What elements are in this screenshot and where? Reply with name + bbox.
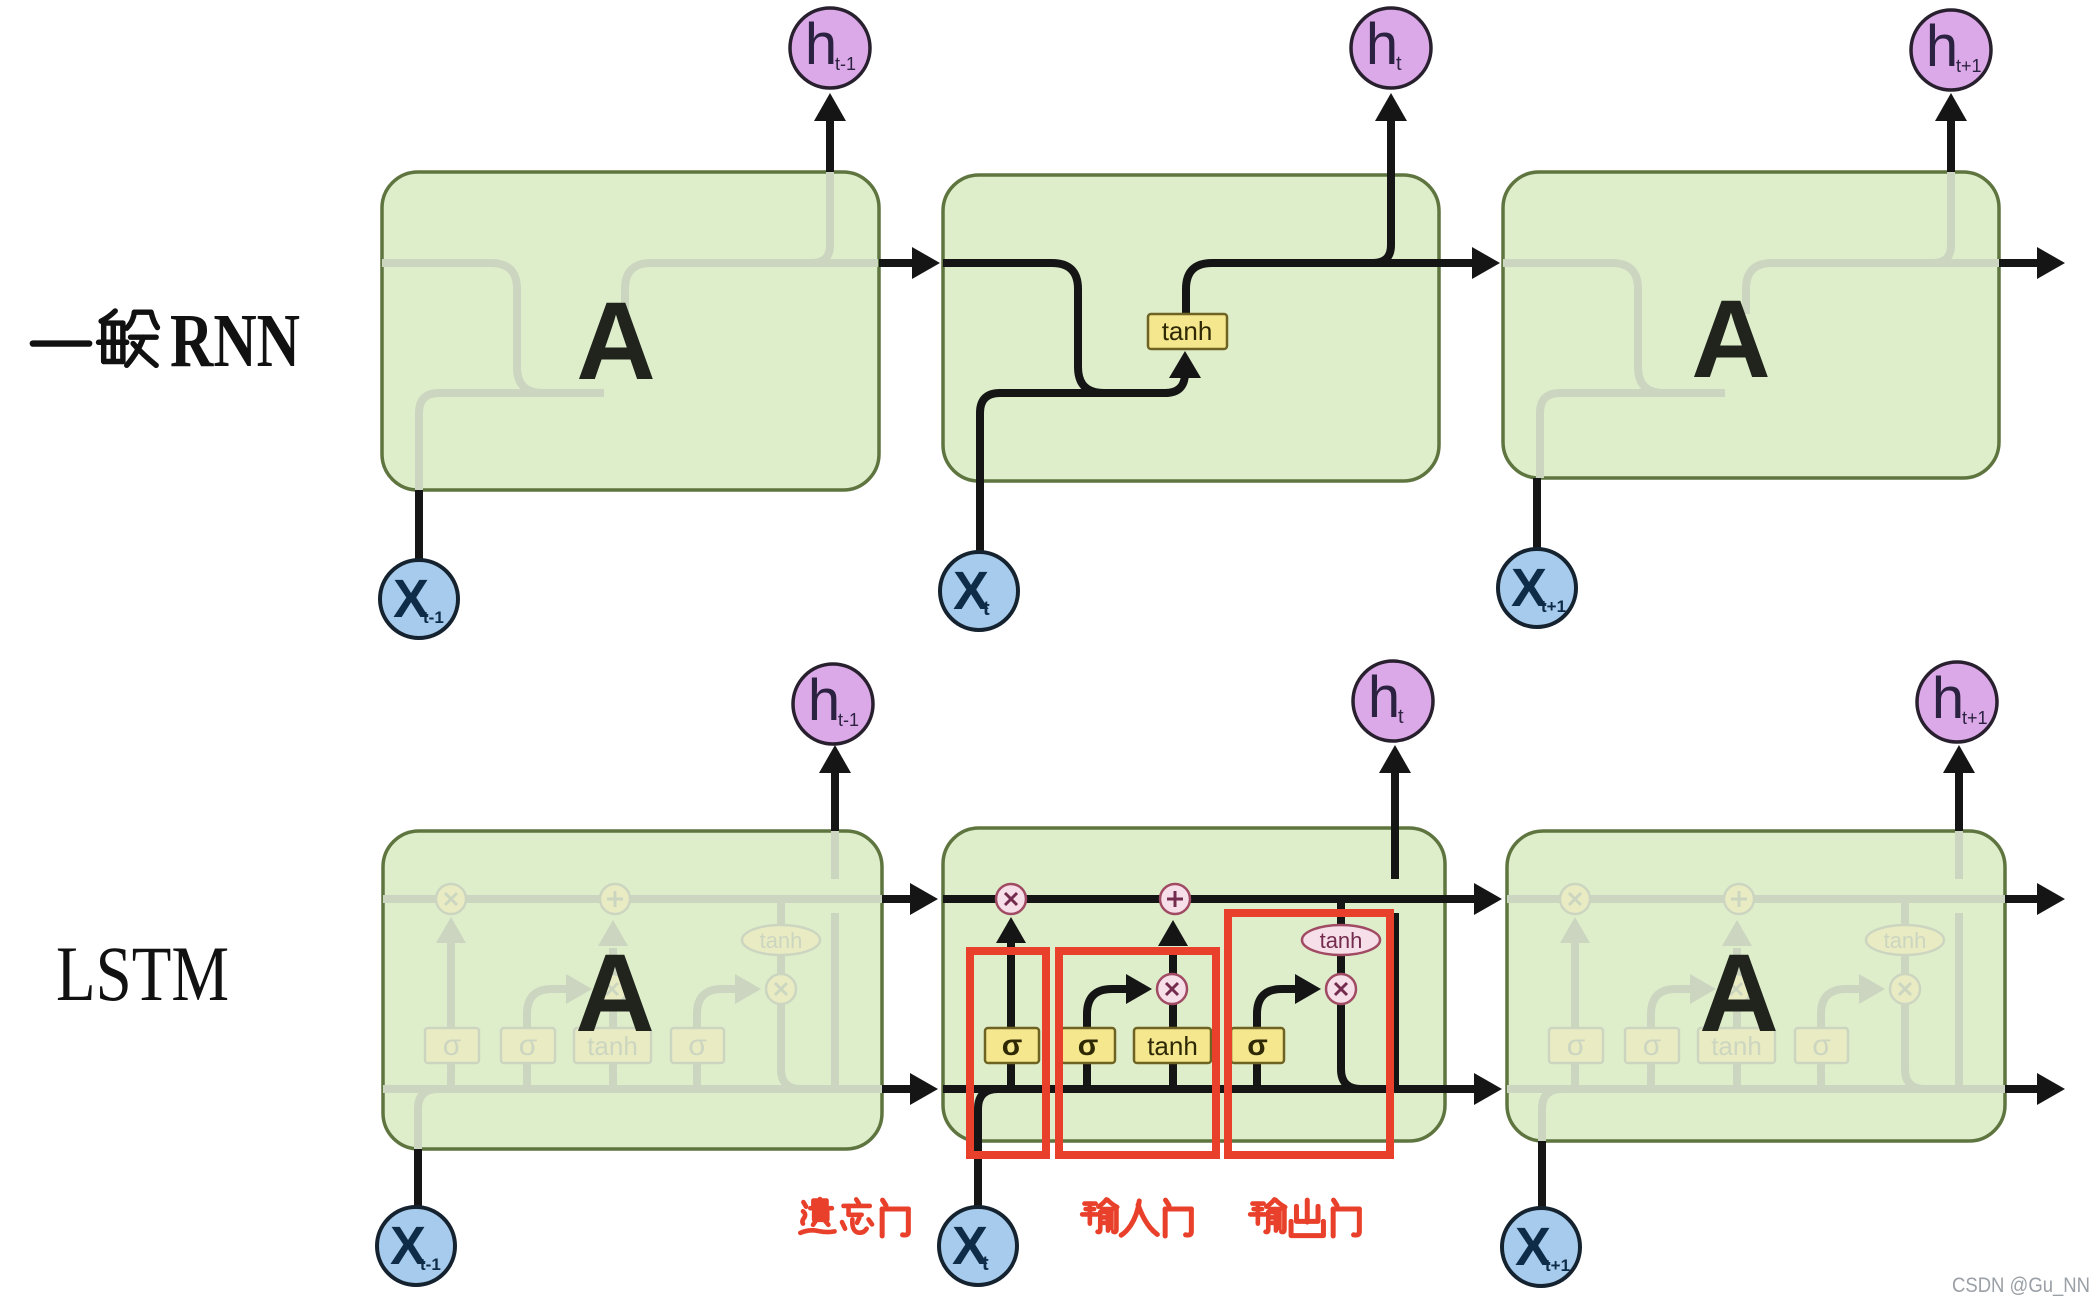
wire LSTM hidden rail t-1 to t <box>882 1085 910 1093</box>
activation box tanh of RNN cell t <box>1148 314 1227 349</box>
svg-text:h: h <box>1932 666 1964 731</box>
node x_t-1 (top row) <box>380 560 458 638</box>
wire: LSTM cell t input gate branch <box>1087 989 1127 1089</box>
gate box forget sigma of LSTM cell t-1 <box>425 1028 479 1063</box>
wire: RNN cell t branch up to h output <box>1373 175 1391 263</box>
RNN cell box A t+1 <box>1503 172 1999 478</box>
gate box forget sigma of LSTM cell t <box>985 1028 1039 1063</box>
wire RNN cell t-1 to t <box>879 259 912 267</box>
svg-text:A: A <box>576 280 655 403</box>
svg-text:σ: σ <box>1078 1029 1099 1062</box>
wire x_t+1 input (LSTM row) <box>1538 1141 1546 1209</box>
wire: LSTM cell t-1 hidden state rail <box>383 1085 885 1093</box>
node h_t-1 (top row) <box>790 8 870 88</box>
op: LSTM cell t+1 forget multiply <box>1560 884 1590 914</box>
op: LSTM cell t-1 cell tanh oval <box>742 925 820 955</box>
wire: RNN cell t+1 x-input rise <box>1540 393 1725 478</box>
wire: LSTM cell t output gate branch <box>1257 989 1295 1089</box>
gate box output sigma of LSTM cell t <box>1231 1028 1284 1063</box>
wire: LSTM cell t-1 cell to tanh drop <box>777 899 785 925</box>
wire LSTM hidden rail t+1 out <box>2005 1085 2037 1093</box>
wire: LSTM cell t+1 candidate branch <box>1733 1004 1741 1089</box>
wire: LSTM cell t output product drop to hidden rail <box>1341 1004 1361 1089</box>
svg-text:t-1: t-1 <box>423 608 444 627</box>
svg-text:σ: σ <box>1247 1029 1268 1062</box>
wire: RNN cell t-1 tanh output to top rail <box>625 263 878 314</box>
node h_t-1 (LSTM row) <box>793 664 873 744</box>
wire: LSTM cell t+1 cell to tanh drop <box>1901 899 1909 925</box>
wire x_t-1 input (top row) <box>415 490 423 560</box>
wire: LSTM cell t+1 output gate branch <box>1821 989 1859 1089</box>
label 遗忘门 forget gate <box>800 1199 834 1233</box>
wire RNN cell t+1 out <box>1999 259 2037 267</box>
svg-text:σ: σ <box>519 1029 538 1062</box>
svg-text:t: t <box>982 1253 989 1275</box>
RNN cell box A t-1 <box>382 172 879 490</box>
svg-text:CSDN @Gu_NN: CSDN @Gu_NN <box>1952 1274 2090 1297</box>
wire x_t+1 input (top row) <box>1533 478 1541 549</box>
wire: LSTM cell t h branch rise (gap at cell rail) <box>1391 913 1399 1089</box>
node h_t (LSTM row) <box>1353 661 1433 741</box>
wire: LSTM cell t+1 output product drop to hidden rail <box>1905 1004 1925 1089</box>
svg-text:t+1: t+1 <box>1956 56 1982 76</box>
wire h_t+1 output arrow (top row) <box>1947 121 1955 172</box>
wire: RNN cell t recurrent input elbow <box>943 263 1165 393</box>
wire: LSTM cell t candidate branch <box>1169 1004 1177 1089</box>
LSTM cell box t-1 <box>383 831 882 1149</box>
svg-text:σ: σ <box>1002 1029 1023 1062</box>
wire h_t-1 output arrow (top row) <box>826 121 834 172</box>
wire: LSTM cell t hidden state rail <box>943 1085 1445 1093</box>
wire: LSTM cell t+1 hidden state rail <box>1507 1085 2009 1093</box>
svg-text:σ: σ <box>688 1029 707 1062</box>
svg-text:t: t <box>983 598 990 620</box>
node x_t (top row) <box>940 552 1018 630</box>
wire: LSTM cell t-1 cell state rail <box>383 895 885 903</box>
wire: RNN cell t-1 recurrent input elbow <box>382 263 604 393</box>
wire LSTM cell rail t+1 out <box>2005 895 2037 903</box>
wire: LSTM cell t x-input rise <box>978 1089 1038 1207</box>
svg-text:h: h <box>1366 12 1398 77</box>
wire x_t-1 input (LSTM row) <box>414 1149 422 1208</box>
wire: LSTM cell t cell to tanh drop <box>1337 899 1345 925</box>
wire h_t output arrow (LSTM row) <box>1391 773 1399 879</box>
node x_t-1 (LSTM row) <box>377 1207 455 1285</box>
gate box candidate tanh of LSTM cell t+1 <box>1698 1028 1775 1063</box>
wire: LSTM cell t cell state rail <box>943 895 1445 903</box>
wire: LSTM cell t-1 input gate branch <box>527 989 567 1089</box>
op: LSTM cell t-1 input multiply <box>597 974 627 1004</box>
label 输出门 output gate <box>1250 1199 1285 1232</box>
op: LSTM cell t+1 cell add <box>1724 884 1754 914</box>
node h_t+1 (top row) <box>1911 10 1991 90</box>
node x_t+1 (LSTM row) <box>1502 1208 1580 1286</box>
op: LSTM cell t-1 output multiply <box>766 974 796 1004</box>
gate box output sigma of LSTM cell t-1 <box>671 1028 724 1063</box>
svg-text:t+1: t+1 <box>1545 1256 1570 1275</box>
wire h_t-1 output arrow (LSTM row) <box>831 773 839 831</box>
op: LSTM cell t forget multiply <box>996 884 1026 914</box>
svg-text:A: A <box>575 932 654 1055</box>
svg-text:A: A <box>1699 932 1778 1055</box>
highlight rect input gate <box>1059 951 1216 1155</box>
node h_t (top row) <box>1351 8 1431 88</box>
svg-text:σ: σ <box>443 1029 462 1062</box>
gate box input sigma of LSTM cell t-1 <box>501 1028 555 1063</box>
svg-text:t+1: t+1 <box>1541 597 1566 616</box>
wire: RNN cell t-1 x-input rise <box>419 393 604 490</box>
op: LSTM cell t cell tanh oval <box>1302 925 1380 955</box>
svg-text:σ: σ <box>1812 1029 1831 1062</box>
svg-text:h: h <box>1368 665 1400 730</box>
op: LSTM cell t+1 cell tanh oval <box>1866 925 1944 955</box>
svg-text:RNN: RNN <box>170 299 300 383</box>
wire: LSTM cell t-1 candidate branch <box>609 1004 617 1089</box>
wire: LSTM cell t+1 cell state rail <box>1507 895 2009 903</box>
svg-text:σ: σ <box>1643 1029 1662 1062</box>
label 一般RNN <box>33 339 89 349</box>
op: LSTM cell t-1 forget multiply <box>436 884 466 914</box>
gate box candidate tanh of LSTM cell t-1 <box>574 1028 651 1063</box>
wire: LSTM cell t+1 x-input rise <box>1542 1089 1602 1141</box>
wire: LSTM cell t+1 input gate branch <box>1651 989 1691 1089</box>
wire LSTM hidden rail t to t+1 <box>1445 1085 1474 1093</box>
highlight rect forget gate <box>970 951 1046 1155</box>
node x_t (LSTM row) <box>939 1207 1017 1285</box>
gate box forget sigma of LSTM cell t+1 <box>1549 1028 1603 1063</box>
gate box output sigma of LSTM cell t+1 <box>1795 1028 1848 1063</box>
gate box candidate tanh of LSTM cell t <box>1134 1028 1211 1063</box>
op: LSTM cell t input multiply <box>1157 974 1187 1004</box>
LSTM cell box t <box>943 828 1445 1141</box>
svg-text:tanh: tanh <box>1320 928 1363 953</box>
wire: LSTM cell t forget gate branch <box>1007 943 1015 1089</box>
wire x_t input (LSTM row) <box>974 1203 982 1211</box>
svg-text:t-1: t-1 <box>838 710 859 730</box>
node h_t+1 (LSTM row) <box>1917 662 1997 742</box>
wire: RNN cell t arrow into tanh <box>1165 373 1185 393</box>
svg-text:A: A <box>1691 278 1770 401</box>
wire: RNN cell t x-input rise <box>980 393 1165 551</box>
op: LSTM cell t output multiply <box>1326 974 1356 1004</box>
op: LSTM cell t-1 cell add <box>600 884 630 914</box>
svg-text:LSTM: LSTM <box>56 930 229 1017</box>
svg-text:σ: σ <box>1567 1029 1586 1062</box>
wire: RNN cell t+1 recurrent input elbow <box>1503 263 1725 393</box>
wire: LSTM cell t-1 forget gate branch <box>447 943 455 1089</box>
wire h_t+1 output arrow (LSTM row) <box>1955 773 1963 831</box>
wire: LSTM cell t-1 output gate branch <box>697 989 735 1089</box>
svg-text:tanh: tanh <box>1162 316 1213 346</box>
node x_t+1 (top row) <box>1498 549 1576 627</box>
svg-text:tanh: tanh <box>1147 1031 1198 1061</box>
wire: LSTM cell t+1 h branch rise (gap at cell rail) <box>1955 913 1963 1089</box>
svg-text:t-1: t-1 <box>835 54 856 74</box>
op: LSTM cell t+1 input multiply <box>1721 974 1751 1004</box>
svg-text:t: t <box>1396 53 1402 75</box>
svg-text:t-1: t-1 <box>420 1255 441 1274</box>
op: LSTM cell t+1 output multiply <box>1890 974 1920 1004</box>
wire: RNN cell t+1 tanh output to top rail <box>1746 263 1999 314</box>
wire RNN cell t to t+1 <box>1439 259 1472 267</box>
wire: RNN cell t+1 branch up to h output <box>1933 172 1951 263</box>
highlight rect output gate <box>1228 913 1390 1155</box>
wire: RNN cell t tanh output to top rail <box>1186 263 1439 314</box>
label 输入门 input gate <box>1082 1199 1117 1232</box>
svg-text:t: t <box>1398 706 1404 728</box>
op: LSTM cell t cell add <box>1160 884 1190 914</box>
gate box input sigma of LSTM cell t <box>1061 1028 1115 1063</box>
wire: LSTM cell t-1 h branch rise (gap at cell rail) <box>831 913 839 1089</box>
svg-text:tanh: tanh <box>760 928 803 953</box>
svg-text:h: h <box>805 12 837 77</box>
wire LSTM cell rail t to t+1 <box>1445 895 1474 903</box>
svg-text:tanh: tanh <box>1884 928 1927 953</box>
wire: LSTM cell t+1 forget gate branch <box>1571 943 1579 1089</box>
LSTM cell box t+1 <box>1507 831 2005 1141</box>
gate box input sigma of LSTM cell t+1 <box>1625 1028 1679 1063</box>
svg-text:h: h <box>1926 14 1958 79</box>
wire LSTM cell rail t-1 to t <box>882 895 910 903</box>
wire x_t input (top row) <box>976 547 984 555</box>
wire: LSTM cell t-1 x-input rise <box>418 1089 478 1149</box>
wire: LSTM cell t-1 output product drop to hidden rail <box>781 1004 801 1089</box>
svg-text:h: h <box>808 668 840 733</box>
svg-text:t+1: t+1 <box>1962 708 1988 728</box>
wire h_t output arrow (top row) <box>1387 121 1395 245</box>
RNN cell box A t <box>943 175 1439 481</box>
wire: RNN cell t-1 branch up to h output <box>812 172 830 263</box>
